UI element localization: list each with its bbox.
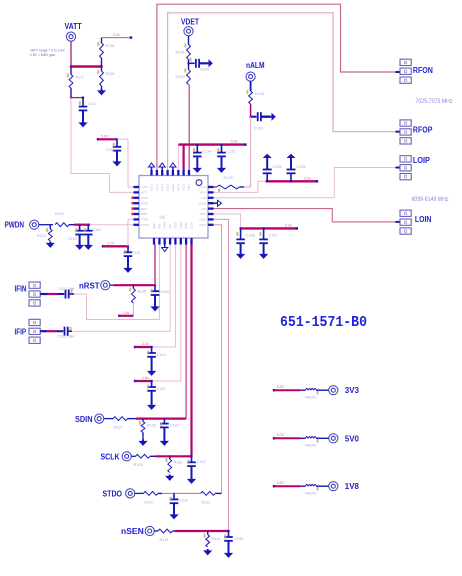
- svg-text:AGND: AGND: [199, 201, 207, 205]
- svg-text:GND1: GND1: [171, 183, 175, 191]
- svg-text:651-1571-B0: 651-1571-B0: [280, 315, 367, 331]
- svg-text:R102: R102: [55, 212, 64, 216]
- capacitor C111b: [151, 381, 153, 387]
- resistor R121: [49, 225, 51, 229]
- svg-text:R112: R112: [202, 501, 211, 505]
- capacitor C106: [228, 531, 230, 537]
- power arrow top pin3: [161, 167, 163, 170]
- wire STDO stem: [135, 492, 144, 494]
- svg-text:VATT: VATT: [141, 191, 148, 195]
- connector J4 PWDN: [30, 220, 39, 229]
- svg-text:nALM: nALM: [199, 185, 207, 189]
- connector LOIN: [400, 210, 411, 216]
- ground C111b: [151, 404, 153, 406]
- wire SDTO vertical from pin: [214, 225, 222, 494]
- ground C110b: [151, 370, 153, 372]
- capacitor C105 inverted: [266, 158, 268, 160]
- wire PWDN thick: [74, 224, 90, 226]
- ground R110: [169, 475, 171, 477]
- svg-text:R123: R123: [224, 176, 233, 180]
- connector J10 STDO: [126, 489, 135, 498]
- wire IFIP thick: [47, 330, 57, 332]
- wire SDIN thick: [136, 418, 187, 420]
- capacitor C114: [196, 145, 198, 153]
- svg-text:VPLO: VPLO: [199, 191, 206, 195]
- ferrite bead FB103: [301, 485, 306, 487]
- ground R114: [207, 549, 209, 551]
- connector J6 IFIP: [29, 319, 40, 325]
- wire VATT junction rail: [71, 65, 102, 67]
- wire STDO mid: [162, 492, 201, 494]
- connector RFOP: [400, 120, 411, 126]
- wire 5.0V to chip LDRF pin: [117, 139, 134, 187]
- svg-text:VCC3: VCC3: [166, 183, 170, 191]
- node 1.8V rail: [118, 315, 120, 317]
- resistor R115: [187, 45, 191, 60]
- node 5.0V rail: [97, 138, 99, 140]
- svg-text:VDET: VDET: [187, 184, 191, 192]
- pin VPLO right: [208, 191, 214, 193]
- svg-text:VCC4: VCC4: [176, 183, 180, 191]
- svg-text:nRST: nRST: [152, 222, 156, 229]
- svg-text:SDIN: SDIN: [184, 223, 188, 229]
- svg-text:C113: C113: [106, 148, 115, 152]
- svg-text:2.7V: 2.7V: [107, 241, 115, 245]
- svg-text:IFIP: IFIP: [15, 327, 27, 336]
- pin SCLK bottom: [190, 238, 192, 245]
- wire nSEN thick: [175, 530, 229, 532]
- wire nRST to chip: [154, 245, 156, 286]
- node 3.3V rail below chip: [134, 346, 136, 348]
- svg-text:6099-6149 MHz: 6099-6149 MHz: [412, 196, 449, 203]
- wire SDIN vertical: [185, 245, 187, 419]
- capacitor C111a: [87, 224, 89, 226]
- svg-text:C109: C109: [297, 165, 306, 169]
- svg-text:C103: C103: [179, 499, 188, 503]
- capacitor C117: [82, 98, 84, 107]
- power arrow top pin5: [172, 167, 174, 170]
- wire IFIN thick: [48, 293, 58, 295]
- svg-text:IFIN: IFIN: [15, 284, 27, 293]
- svg-text:1.8v: 1.8v: [123, 311, 130, 315]
- node nALM junction: [250, 116, 252, 118]
- ground C104 right: [207, 62, 209, 64]
- node VATT divider junction: [70, 97, 72, 99]
- svg-text:VCC1: VCC1: [155, 183, 159, 191]
- svg-text:C106: C106: [234, 537, 243, 541]
- capacitor C101: [163, 418, 165, 420]
- svg-text:3.3V: 3.3V: [277, 385, 285, 389]
- pin IBBN left: [134, 213, 140, 215]
- pin VCC2 top: [161, 170, 163, 176]
- node 3.3V power entry: [273, 389, 275, 391]
- svg-text:C115: C115: [227, 150, 236, 154]
- no-connect marks left pins: [131, 197, 133, 199]
- svg-text:LON: LON: [201, 207, 207, 211]
- svg-text:R126: R126: [255, 92, 264, 96]
- wire R126 to junction: [250, 104, 252, 117]
- svg-text:R120: R120: [176, 75, 185, 79]
- wire RFOP route: [168, 13, 396, 170]
- svg-text:3.3v: 3.3v: [113, 33, 120, 37]
- resistor R120: [188, 63, 190, 69]
- wire nRST stem: [110, 284, 114, 286]
- power arrow bottom pin3: [164, 245, 166, 248]
- capacitor C116: [154, 284, 156, 286]
- wire nRST thick: [114, 284, 156, 286]
- svg-text:VPLO: VPLO: [199, 212, 206, 216]
- svg-text:R117: R117: [76, 76, 85, 80]
- pin IFIP bottom: [169, 238, 171, 245]
- ground C120 right: [270, 116, 272, 118]
- ground C108: [240, 253, 242, 255]
- capacitor C109 inverted: [290, 158, 292, 160]
- svg-text:R109: R109: [134, 463, 143, 467]
- svg-text:LDRF: LDRF: [141, 185, 148, 189]
- pin VCC1 top: [156, 170, 158, 176]
- pin VTRB left: [134, 218, 140, 220]
- svg-text:IFIN: IFIN: [157, 224, 161, 229]
- resistor R123: [217, 185, 240, 189]
- connector RFON: [400, 59, 411, 65]
- pin nSEN right: [208, 218, 214, 220]
- connector J11 nSEN: [145, 526, 154, 535]
- resistor R113: [158, 529, 173, 533]
- svg-text:U1: U1: [160, 215, 166, 220]
- ground C117: [82, 121, 84, 123]
- svg-text:LOP: LOP: [201, 196, 207, 200]
- svg-text:VDD1: VDD1: [173, 221, 177, 229]
- svg-text:C108: C108: [246, 234, 255, 238]
- svg-text:C111: C111: [157, 387, 166, 391]
- svg-text:C114: C114: [203, 150, 212, 154]
- wire nSEN stem: [154, 530, 158, 532]
- ground C103: [173, 513, 175, 515]
- wire LOIP route: [214, 168, 396, 198]
- resistor R118: [101, 38, 103, 43]
- svg-text:5V0: 5V0: [345, 434, 360, 443]
- svg-text:PWDN: PWDN: [5, 221, 25, 230]
- svg-text:1V8: 1V8: [345, 482, 360, 491]
- svg-text:R121: R121: [37, 234, 46, 238]
- capacitor C102: [191, 456, 193, 462]
- wire to C117: [71, 97, 83, 99]
- pin AGND right: [208, 202, 214, 204]
- svg-text:VCC5: VCC5: [182, 183, 186, 191]
- svg-text:R110: R110: [174, 461, 183, 465]
- capacitor C110b: [151, 347, 153, 353]
- power arrow right AGND: [214, 202, 218, 204]
- wire nALM down to R123: [250, 117, 252, 187]
- ground C101: [163, 440, 165, 442]
- pin LON right: [208, 207, 214, 209]
- pin GND2 bottom: [164, 238, 166, 245]
- svg-text:SCLK: SCLK: [190, 222, 194, 229]
- svg-text:3V3: 3V3: [345, 386, 360, 395]
- node 1.8V power entry: [273, 485, 275, 487]
- svg-text:nSEN: nSEN: [121, 527, 144, 536]
- resistor R117: [70, 67, 72, 75]
- capacitor C108: [240, 228, 242, 239]
- wire PWDN stem: [39, 224, 53, 226]
- ground C114: [196, 167, 198, 169]
- wire nSEN vertical from pin: [214, 219, 229, 531]
- wire LOIN route: [214, 209, 396, 222]
- node 5.0V top rail: [178, 143, 245, 145]
- wire chip top pin6 to rail: [177, 145, 179, 170]
- pin nALM right: [208, 186, 214, 188]
- svg-text:VDET: VDET: [181, 17, 199, 26]
- svg-text:C111: C111: [93, 228, 102, 232]
- svg-text:C117: C117: [88, 102, 97, 106]
- svg-text:SDIN: SDIN: [75, 415, 93, 424]
- svg-text:1.8v: 1.8v: [142, 376, 149, 380]
- svg-text:R108: R108: [147, 424, 156, 428]
- svg-text:3.3v: 3.3v: [304, 177, 311, 181]
- pin RFON left: [134, 197, 140, 199]
- svg-text:C120: C120: [254, 127, 263, 131]
- svg-text:2.6V = MAX gain: 2.6V = MAX gain: [30, 53, 55, 57]
- resistor R109: [136, 454, 151, 458]
- svg-text:VDD2: VDD2: [179, 221, 183, 229]
- svg-text:RFON: RFON: [413, 66, 433, 75]
- ground C106: [228, 552, 230, 554]
- wire SDIN stem: [104, 418, 113, 420]
- svg-text:C107: C107: [269, 234, 278, 238]
- capacitor C123 series: [57, 330, 64, 332]
- ground R108: [142, 440, 144, 442]
- svg-text:nSEN: nSEN: [199, 218, 206, 222]
- resistor R110 pulldown: [169, 455, 171, 457]
- svg-text:VGG1: VGG1: [150, 183, 154, 191]
- svg-text:LOIP: LOIP: [413, 156, 431, 165]
- svg-text:FB103: FB103: [305, 492, 316, 496]
- connector J9 SCLK: [122, 452, 131, 461]
- pin IBBP left: [134, 207, 140, 209]
- ground C115: [221, 167, 223, 169]
- wire SCLK vertical: [190, 245, 192, 457]
- wire RFON route: [157, 4, 396, 170]
- svg-text:IFIP: IFIP: [168, 224, 172, 229]
- svg-text:C105: C105: [273, 165, 282, 169]
- svg-text:C123: C123: [58, 335, 67, 339]
- pin nRST bottom: [153, 238, 155, 245]
- resistor R126: [249, 91, 253, 104]
- wire pin to 3.3V rail below: [152, 245, 176, 348]
- ground C112: [127, 267, 129, 269]
- svg-text:VCC2: VCC2: [160, 183, 164, 191]
- node 5.0V power entry: [273, 437, 275, 439]
- svg-text:1.8V: 1.8V: [277, 481, 285, 485]
- pin VCC3 top: [166, 170, 168, 176]
- wire IFIN to chip: [74, 245, 159, 320]
- IC U1: [139, 176, 208, 239]
- pin VDET top: [188, 170, 190, 176]
- ground R119: [101, 89, 103, 91]
- capacitor C103: [173, 492, 175, 494]
- capacitor C104 horizontal: [189, 62, 195, 64]
- pin LDRF left: [134, 186, 140, 188]
- connector 5V0: [329, 434, 338, 443]
- resistor R112: [201, 492, 216, 496]
- pin VCC5 top: [182, 170, 184, 176]
- resistor R102: [55, 223, 69, 227]
- svg-text:GND2: GND2: [163, 221, 167, 229]
- connector 3V3: [329, 386, 338, 395]
- node 2.7V rail: [102, 245, 104, 247]
- svg-text:5.0V: 5.0V: [101, 134, 109, 138]
- capacitor C115: [221, 145, 223, 153]
- svg-text:PWDN: PWDN: [141, 223, 149, 227]
- wire nALM stem: [250, 81, 252, 91]
- wire PWDN to chip: [90, 224, 134, 226]
- svg-text:C110: C110: [68, 237, 77, 241]
- connector J1 VATT: [66, 32, 75, 41]
- svg-text:VTRB: VTRB: [141, 218, 148, 222]
- svg-text:VATT range = 0 to 2.6V: VATT range = 0 to 2.6V: [30, 48, 65, 52]
- wire nALM pin stub: [214, 186, 217, 188]
- wire VDET stem: [188, 36, 190, 45]
- power arrow top pin1: [151, 167, 153, 170]
- wire IFIN stub: [40, 293, 47, 295]
- wire R116 to 1.8V: [132, 303, 134, 316]
- svg-text:RFON: RFON: [141, 196, 149, 200]
- ground C116: [154, 305, 156, 307]
- node VDET junction: [188, 62, 190, 64]
- pin PWDN left: [134, 224, 140, 226]
- svg-text:7025-7075 MHz: 7025-7075 MHz: [416, 98, 453, 105]
- node 3.3V rail right: [266, 180, 317, 182]
- pin VDD2 bottom: [180, 238, 182, 245]
- svg-text:RFOP: RFOP: [141, 201, 149, 205]
- pin GND1 top: [172, 170, 174, 176]
- node 3.3V rail top: [102, 37, 132, 39]
- svg-text:R118: R118: [106, 44, 115, 48]
- ground C110a: [79, 244, 81, 246]
- ground C113: [116, 160, 118, 162]
- node 1.8V rail below chip: [134, 380, 136, 382]
- svg-text:nALM: nALM: [246, 61, 265, 70]
- svg-text:1nH: 1nH: [68, 335, 75, 339]
- connector J5 IFIN: [29, 282, 40, 288]
- svg-text:5.0V: 5.0V: [277, 433, 285, 437]
- pin SDTO right: [208, 224, 214, 226]
- svg-text:C102: C102: [197, 460, 206, 464]
- svg-text:R116: R116: [138, 290, 147, 294]
- pin VPLO right: [208, 213, 214, 215]
- svg-text:C116: C116: [160, 290, 169, 294]
- wire SCLK stem: [131, 455, 135, 457]
- svg-text:R115: R115: [176, 51, 185, 55]
- svg-text:R114: R114: [212, 537, 221, 541]
- pin IFIN bottom: [158, 238, 160, 245]
- svg-text:STDO: STDO: [103, 490, 123, 499]
- svg-text:VATT: VATT: [65, 22, 82, 31]
- svg-text:C112: C112: [132, 251, 141, 255]
- capacitor C112: [127, 246, 129, 252]
- svg-text:RFOP: RFOP: [413, 125, 433, 134]
- wire VATT stem: [70, 41, 72, 66]
- wire VATT to chip VATT pin: [71, 98, 134, 193]
- wire pin to lower rail: [214, 214, 241, 228]
- ground C107: [263, 253, 265, 255]
- connector J3 nALM: [246, 72, 255, 81]
- pin LOP right: [208, 197, 214, 199]
- wire IFIP to chip: [72, 245, 170, 332]
- capacitor C120 horizontal: [251, 116, 257, 118]
- pin RFOP left: [134, 202, 140, 204]
- capacitor C121 series: [58, 293, 65, 295]
- pin VDD1 bottom: [174, 238, 176, 245]
- resistor R116 pullup: [132, 284, 134, 286]
- svg-text:IBBN: IBBN: [141, 212, 147, 216]
- svg-text:SCLK: SCLK: [101, 453, 120, 462]
- svg-text:FB102: FB102: [305, 444, 316, 448]
- capacitor C110a: [79, 224, 81, 226]
- wire SCLK thick: [156, 455, 192, 457]
- connector J7 nRST: [101, 281, 110, 290]
- capacitor C107: [263, 228, 265, 239]
- pin VGG1 top: [150, 170, 152, 176]
- svg-text:C121: C121: [58, 287, 67, 291]
- wire VPLO pin to 3.3V rail: [214, 181, 266, 192]
- svg-text:3.3v: 3.3v: [142, 342, 149, 346]
- pin VCC4 top: [177, 170, 179, 176]
- wire chip top pin7 to rail thick: [183, 145, 185, 170]
- svg-text:C110: C110: [157, 353, 166, 357]
- connector LOIP: [400, 156, 411, 162]
- pin SDIN bottom: [185, 238, 187, 245]
- svg-text:R119: R119: [106, 72, 115, 76]
- pin VATT left: [134, 191, 140, 193]
- ferrite bead FB102: [301, 437, 306, 439]
- wire VDET to chip top pin: [188, 85, 190, 171]
- svg-text:LOIN: LOIN: [415, 215, 432, 224]
- svg-text:R113: R113: [160, 538, 169, 542]
- connector J2 VDET: [184, 27, 193, 36]
- svg-text:3.3v: 3.3v: [285, 224, 292, 228]
- node 3.3V rail lower: [241, 227, 297, 229]
- wire pin to 1.8V rail below: [152, 245, 181, 382]
- resistor R119: [101, 67, 103, 72]
- ground C111a: [87, 244, 89, 246]
- svg-text:5.0v: 5.0v: [231, 140, 238, 144]
- resistor R107: [113, 417, 128, 421]
- ferrite bead FB101: [301, 389, 306, 391]
- ground C102: [191, 478, 193, 480]
- capacitor C113: [116, 139, 118, 147]
- resistor R114 pulldown: [207, 530, 209, 532]
- resistor R111: [144, 492, 159, 496]
- svg-text:R111: R111: [145, 501, 154, 505]
- svg-text:IBBP: IBBP: [141, 207, 147, 211]
- wire R123 to nALM net: [244, 186, 251, 188]
- svg-text:C104: C104: [200, 68, 209, 72]
- ground R121: [49, 242, 51, 244]
- wire VTRB pin to 2.7V: [128, 219, 134, 246]
- svg-text:FB101: FB101: [305, 396, 316, 400]
- svg-text:C101: C101: [170, 424, 179, 428]
- wire IFIP stub: [40, 330, 46, 332]
- svg-text:nRST: nRST: [79, 281, 100, 290]
- connector J8 SDIN: [95, 414, 104, 423]
- resistor R108 pulldown: [142, 418, 144, 420]
- svg-text:SDTO: SDTO: [199, 223, 206, 227]
- svg-text:R107: R107: [114, 425, 123, 429]
- connector 1V8: [329, 482, 338, 491]
